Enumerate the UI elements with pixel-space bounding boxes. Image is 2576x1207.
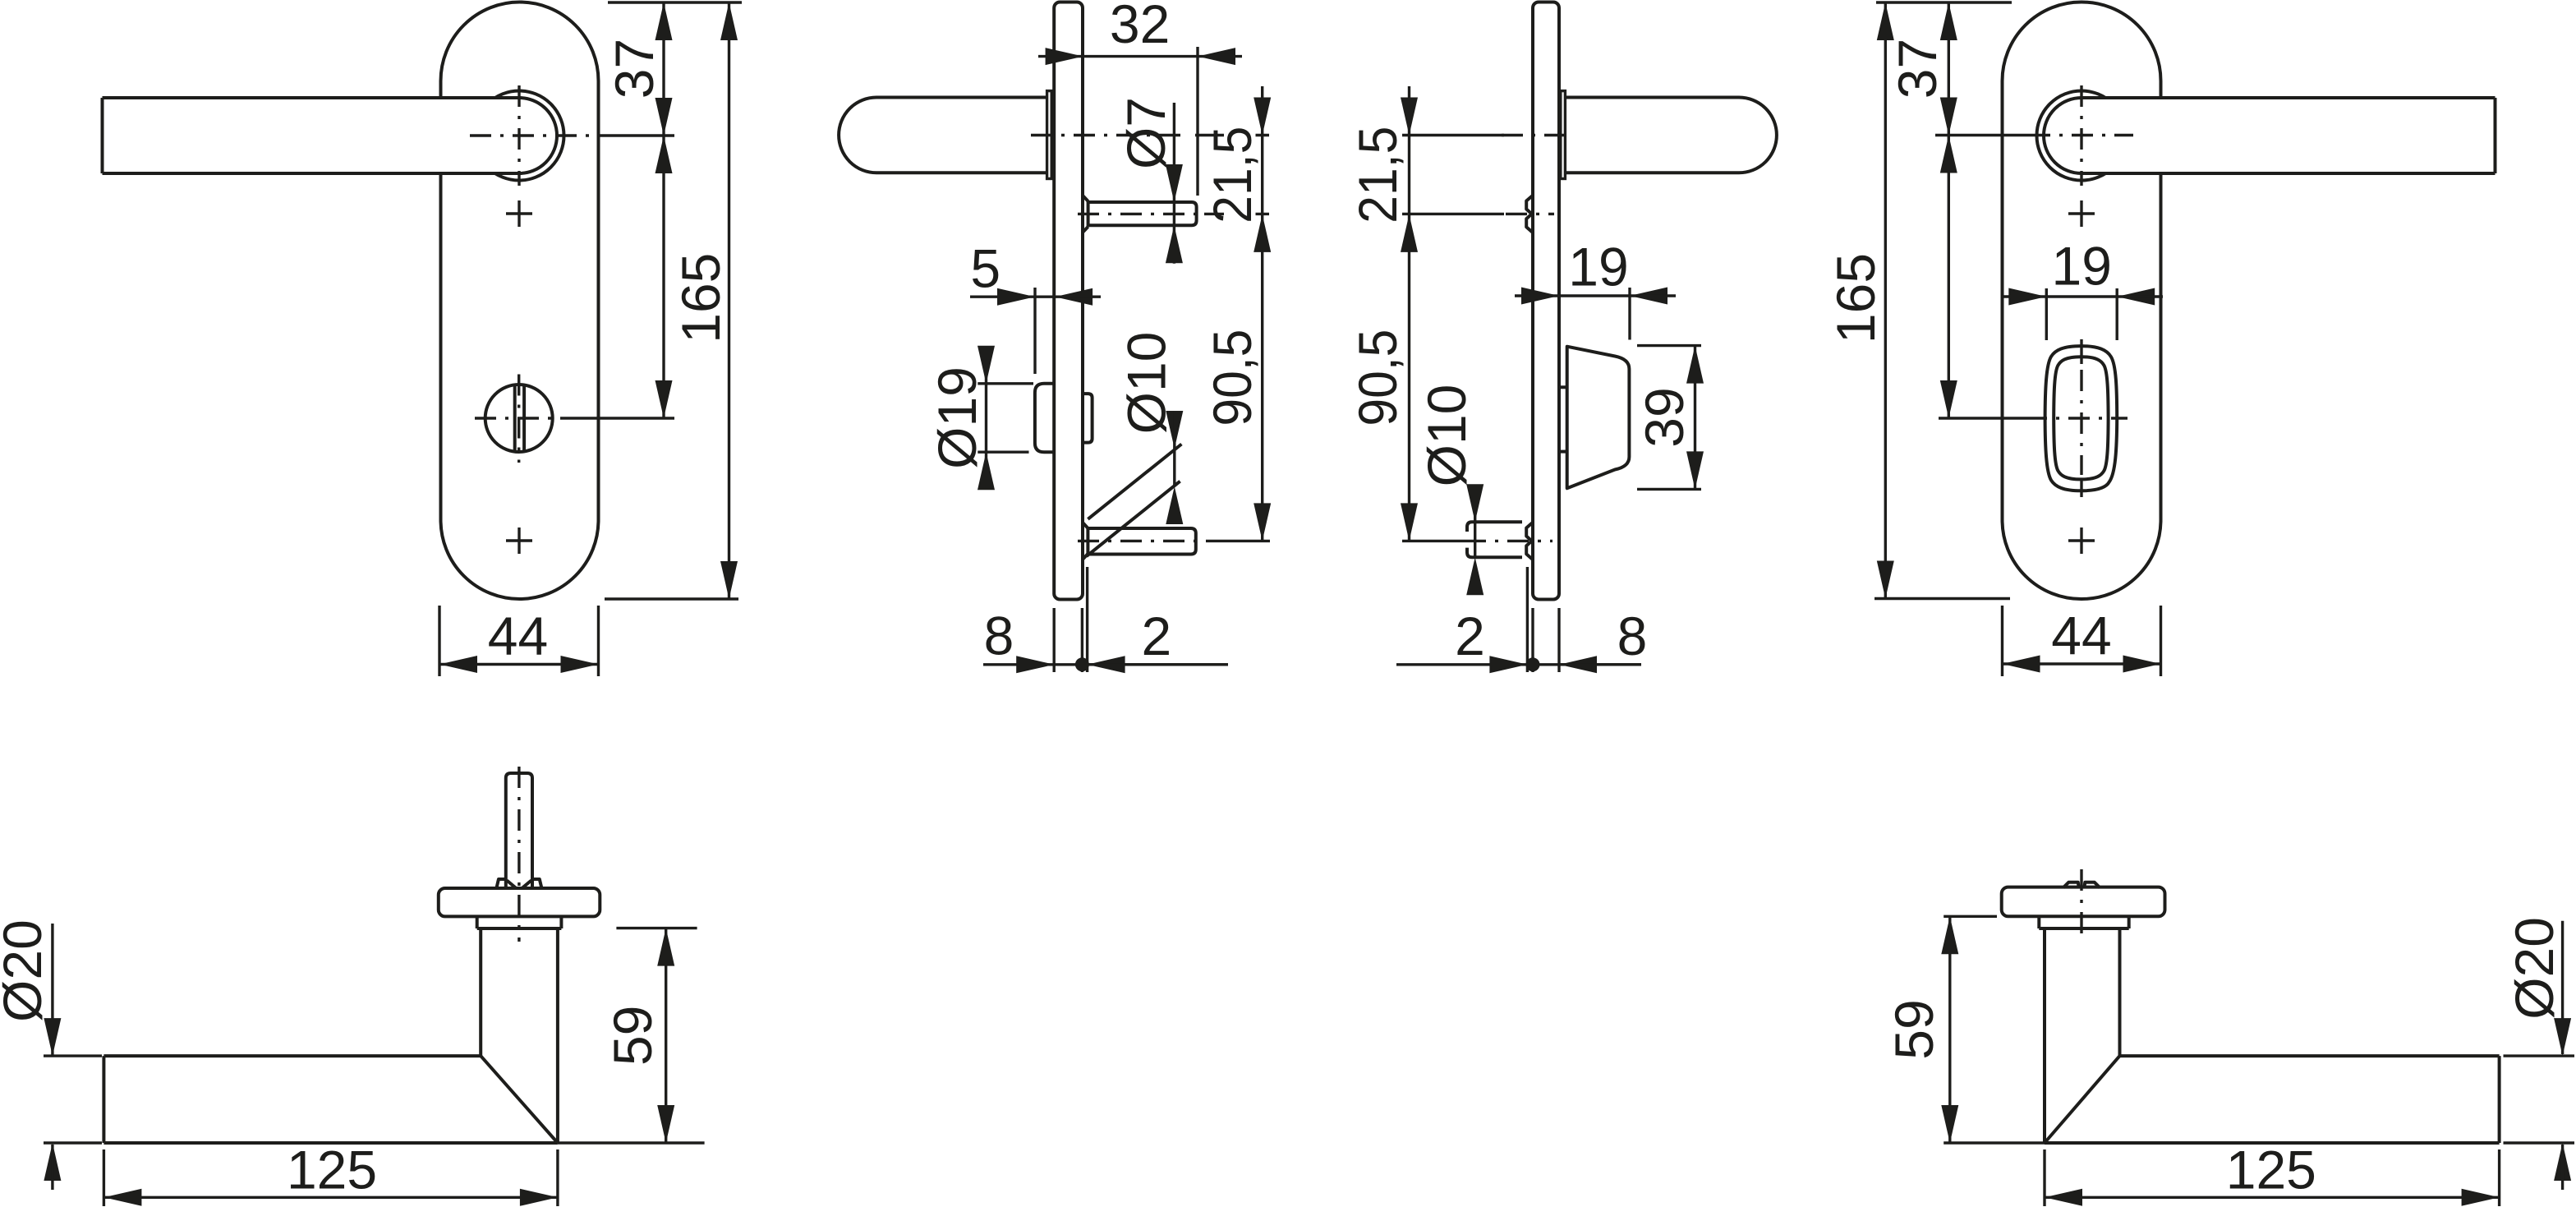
svg-text:19: 19: [1568, 237, 1628, 297]
extension line 59 bottom (view 5): [558, 1141, 705, 1144]
lower screw axis centerline (view 2): [1078, 540, 1198, 542]
dimension chain handle-to-WC (view 1): [662, 136, 665, 418]
top extension line (view 4): [1876, 1, 2012, 3]
svg-text:59: 59: [602, 1006, 663, 1066]
dimension 165 (view 1): [728, 2, 730, 599]
upper screw head hidden (view 3): [1526, 196, 1533, 233]
extension line 32 (view 2): [1196, 47, 1198, 196]
dimension 32 (view 2): [1038, 55, 1083, 58]
thumbturn neck tab (view 3): [1559, 385, 1567, 389]
handle neck (view 6): [2118, 928, 2122, 1056]
collar underside step (view 5): [476, 916, 479, 928]
svg-text:Ø20: Ø20: [2504, 917, 2564, 1020]
bottom extension line (view 4): [1874, 597, 2010, 600]
handle axis centerline (view 3): [1402, 134, 1504, 136]
svg-text:90,5: 90,5: [1347, 329, 1408, 426]
WC rose centerline vertical (view 1): [517, 375, 520, 463]
spindle socket chevron right (view 6): [2084, 882, 2100, 888]
dimension diameter 7 (view 2): [1173, 103, 1175, 264]
WC release rose circle (view 1): [485, 385, 553, 452]
spindle centerline (view 5): [517, 767, 520, 942]
dimension 2 (view 3): [1396, 663, 1641, 666]
dimension chain handle-to-turn (view 4): [1948, 136, 1950, 419]
svg-text:44: 44: [488, 606, 548, 666]
dimension 125 (view 6): [2045, 1196, 2500, 1199]
dimension diameter 20 (view 6): [2561, 921, 2564, 1054]
extension lines 44 (view 1): [438, 606, 440, 676]
svg-text:125: 125: [287, 1139, 377, 1200]
handle neck (view 5): [479, 928, 482, 1056]
handle grip top view (view 5): [103, 1054, 481, 1057]
dimension diameter 10 (view 3): [1474, 486, 1476, 557]
handle rose outer circle (view 1): [475, 91, 564, 181]
upper screw countersunk head (view 2): [1083, 196, 1088, 201]
extension line 59 bottom (view 6): [1943, 1141, 2045, 1144]
thumbturn centerline vertical (view 4): [2080, 339, 2082, 364]
handle rose outer circle (view 4): [2037, 91, 2127, 181]
handle grip side profile (view 2): [839, 98, 1047, 173]
miter joint diagonal (view 6): [2045, 1056, 2120, 1143]
extension lines 39 (view 3): [1637, 344, 1701, 347]
svg-text:90,5: 90,5: [1202, 329, 1263, 426]
rose collar disc (view 6): [2002, 887, 2165, 917]
dimension 44 (view 4): [2003, 662, 2161, 665]
extension lines 8 and 2 (view 2): [1052, 608, 1055, 672]
miter joint diagonal (view 5): [481, 1056, 558, 1143]
collar underside step (view 6): [2037, 916, 2040, 928]
spindle foot right (view 5): [532, 879, 541, 888]
WC release rose bump (view 2): [1035, 384, 1054, 452]
handle centerline vertical (view 4): [2080, 85, 2082, 186]
extension lines diameter 20 (view 5): [44, 1054, 102, 1057]
extension lines 44 (view 4): [2001, 606, 2003, 676]
svg-text:8: 8: [984, 606, 1014, 666]
spindle socket chevron left (view 6): [2063, 882, 2079, 888]
lower fixing mark + (view 4): [2068, 539, 2095, 541]
dimension 39 (view 3): [1694, 346, 1696, 490]
lever handle bar (view 4): [2081, 98, 2495, 173]
extension lines 125 (view 6): [2043, 1149, 2045, 1206]
handle centerline vertical (view 1): [517, 85, 520, 186]
spindle hole diagonal B (view 2): [1087, 481, 1180, 556]
rear turn tab (view 2): [1083, 394, 1092, 442]
dimension diameter 20 (view 5): [51, 924, 53, 1056]
svg-text:37: 37: [604, 39, 665, 99]
dimension diameter 10 (view 2): [1166, 411, 1183, 449]
upper fixing mark + (view 4): [2068, 212, 2095, 214]
handle collar (view 2): [1047, 91, 1052, 179]
handle neck end cap arc (view 1): [519, 98, 557, 173]
svg-text:44: 44: [2051, 606, 2111, 666]
upper screw axis centerline (view 2): [1078, 213, 1198, 215]
plate edge-on (view 3): [1533, 2, 1559, 600]
lever handle bar (view 1): [103, 98, 520, 173]
svg-text:19: 19: [2052, 236, 2112, 297]
svg-text:125: 125: [2226, 1139, 2316, 1200]
dimension 165 (view 4): [1884, 2, 1887, 599]
lower screw axis centerline (view 3): [1402, 540, 1465, 542]
thumbturn centerline horizontal (view 4): [1939, 417, 2026, 419]
dimension 8 (view 3): [1526, 657, 1540, 671]
extension line 59 top (view 6): [1943, 915, 1997, 918]
svg-text:39: 39: [1634, 387, 1695, 447]
dimension 90,5 (view 3): [1408, 136, 1410, 541]
square spindle bush (view 3): [1467, 522, 1522, 532]
handle grip top view (view 6): [2120, 1054, 2500, 1057]
dimension 19 (view 3): [1515, 294, 1630, 297]
dimension 59 (view 5): [665, 928, 667, 1143]
svg-text:165: 165: [1825, 253, 1886, 343]
handle grip side profile (view 3): [1565, 98, 1777, 173]
thumbturn inner shape (view 4): [2054, 357, 2108, 479]
svg-text:8: 8: [1617, 606, 1648, 666]
svg-text:2: 2: [1455, 606, 1485, 666]
extension line 5 (view 2): [1033, 288, 1036, 374]
dimension 125 (view 5): [103, 1196, 558, 1199]
upper mounting screw shaft (view 2): [1088, 202, 1197, 225]
handle centerline horizontal (view 4): [1935, 134, 2029, 136]
upper fixing mark + (view 1): [506, 212, 532, 214]
lower mounting screw shaft (view 2): [1088, 528, 1195, 555]
handle neck end cap arc (view 4): [2044, 98, 2081, 173]
dimension 37 (view 4): [1948, 2, 1950, 136]
dimension 5 (view 2): [970, 296, 1055, 298]
svg-text:Ø7: Ø7: [1115, 97, 1176, 169]
dimension 8 (view 2): [983, 663, 1228, 666]
thumbturn outer shape (view 4): [2045, 346, 2118, 491]
svg-text:Ø10: Ø10: [1115, 332, 1176, 435]
svg-text:165: 165: [670, 253, 731, 343]
plate (short plate, front view left): [441, 2, 599, 600]
extension lines 19 (view 4): [2045, 288, 2048, 340]
dimension 37 (view 1): [662, 2, 665, 136]
svg-text:21,5: 21,5: [1202, 127, 1263, 223]
svg-text:Ø19: Ø19: [927, 366, 987, 469]
extension line 19 (view 3): [1628, 288, 1631, 340]
lower screw countersunk head (view 2): [1083, 523, 1088, 528]
svg-text:37: 37: [1887, 39, 1948, 99]
dimension 19 (view 4): [2001, 295, 2117, 297]
spindle chamfer lines (view 5): [507, 881, 516, 888]
bottom extension line (view 1): [605, 597, 738, 600]
plate (short plate, front view right): [2003, 2, 2161, 600]
dimension 21,5 (view 3): [1408, 86, 1410, 136]
lower fixing mark + (view 1): [506, 539, 532, 541]
dimension 21,5 (view 2): [1261, 86, 1263, 136]
handle axis centerline (view 2): [1031, 134, 1189, 136]
svg-text:2: 2: [1141, 606, 1171, 666]
svg-text:21,5: 21,5: [1347, 127, 1408, 223]
handle collar (view 3): [1561, 91, 1566, 179]
rose collar disc (view 5): [439, 888, 600, 916]
square spindle (view 5): [506, 773, 532, 888]
screwdriver slot (view 1): [513, 385, 517, 451]
svg-text:5: 5: [970, 238, 1000, 299]
dimension 90,5 (view 2): [1261, 136, 1263, 541]
WC rose centerline horizontal (view 1): [475, 417, 567, 419]
svg-text:59: 59: [1884, 999, 1944, 1059]
svg-text:Ø10: Ø10: [1416, 385, 1477, 487]
spindle centerline (view 6): [2080, 869, 2082, 942]
top extension line (view 1): [608, 1, 742, 3]
handle centerline horizontal (view 1): [470, 134, 614, 136]
dimension 2 (view 2): [1075, 657, 1089, 671]
extension lines diameter 20 (view 6): [2504, 1054, 2575, 1057]
svg-text:32: 32: [1110, 0, 1170, 54]
extension lines 125 (view 5): [103, 1149, 105, 1206]
lower screw head hidden (view 3): [1526, 523, 1533, 560]
dimension 44 (view 1): [439, 663, 599, 666]
upper screw axis extension (view 3): [1402, 213, 1504, 215]
dimension diameter 19 (view 2): [985, 348, 987, 489]
extension lines diameter 19 (view 2): [977, 382, 1033, 385]
dimension 59 (view 6): [1948, 916, 1951, 1143]
extension line 59 top (view 5): [616, 927, 697, 929]
extension lines 2 and 8 (view 3): [1526, 567, 1529, 672]
spindle foot left (view 5): [497, 879, 506, 888]
svg-text:Ø20: Ø20: [0, 919, 53, 1022]
thumbturn knob (view 3): [1567, 347, 1630, 489]
plate edge-on (view 2): [1054, 2, 1083, 600]
spindle hole diagonal A (view 2): [1088, 445, 1181, 519]
